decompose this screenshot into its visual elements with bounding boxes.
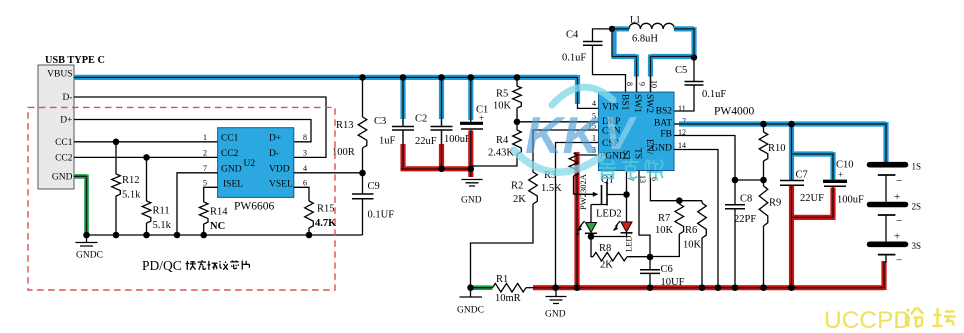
wire CSN net	[533, 130, 599, 172]
svg-text:R9: R9	[769, 198, 781, 209]
label PD/QC protocol chip (Chinese)	[142, 258, 249, 273]
capacitor C6 10UF	[640, 257, 685, 288]
charger IC U1 PW4000	[599, 92, 755, 170]
svg-text:2: 2	[203, 149, 207, 158]
svg-text:GND: GND	[52, 173, 73, 183]
capacitor C1 100uF (polarized)	[444, 105, 488, 146]
op-amp / protocol IC U2 PW6606	[218, 128, 294, 213]
svg-text:5.1k: 5.1k	[122, 190, 141, 201]
svg-text:8: 8	[303, 133, 307, 142]
svg-text:C6: C6	[661, 264, 673, 275]
svg-text:C2: C2	[415, 114, 427, 125]
LED LED1 (red)	[591, 195, 634, 253]
battery cell 3S	[870, 215, 922, 267]
svg-text:C3: C3	[374, 116, 386, 127]
svg-text:UCCPD: UCCPD	[824, 307, 911, 333]
wire U1 pin7	[626, 171, 628, 195]
svg-text:22UF: 22UF	[800, 193, 824, 204]
ground GNDC (battery side)	[457, 288, 484, 316]
U2 pin numbers	[203, 133, 307, 188]
svg-text:SW2: SW2	[644, 94, 654, 113]
wire DRP	[517, 121, 599, 123]
svg-text:R13: R13	[336, 120, 354, 131]
svg-text:C4: C4	[566, 30, 579, 41]
svg-text:3S: 3S	[912, 241, 922, 251]
svg-text:5.1k: 5.1k	[153, 220, 172, 231]
wire U1 pin13	[639, 171, 650, 258]
svg-text:−: −	[896, 215, 902, 227]
wire blue drops to input caps	[403, 79, 471, 120]
capacitor C3 1uF	[374, 116, 414, 147]
svg-text:BAT: BAT	[654, 119, 672, 129]
resistor R11 5.1k	[142, 157, 171, 235]
svg-text:22uF: 22uF	[415, 136, 437, 147]
svg-text:C8: C8	[740, 194, 752, 205]
wire FB	[674, 136, 764, 181]
wire CC2	[74, 156, 218, 158]
capacitor C9 0.1UF	[352, 173, 394, 235]
wire CSP net	[556, 143, 599, 289]
ground GND (power)	[545, 291, 567, 320]
svg-text:6.8uH: 6.8uH	[632, 34, 658, 45]
svg-text:14: 14	[678, 141, 686, 150]
svg-text:4: 4	[303, 164, 307, 173]
svg-text:6: 6	[650, 177, 659, 181]
resistor R5 10K	[493, 79, 521, 122]
svg-text:VDD: VDD	[269, 165, 290, 175]
svg-text:CSN: CSN	[602, 127, 621, 137]
svg-text:22PF: 22PF	[734, 214, 756, 225]
svg-text:R7: R7	[658, 213, 670, 224]
svg-text:VIN: VIN	[602, 103, 619, 113]
svg-text:10K: 10K	[655, 225, 674, 236]
wire U1 pin6 EN	[650, 171, 702, 201]
wire U2 VDD	[294, 172, 363, 174]
svg-text:R10: R10	[768, 143, 786, 154]
capacitor C7 22UF	[780, 170, 824, 288]
svg-text:R1: R1	[496, 274, 508, 285]
wire VBUS into VIN	[578, 104, 599, 108]
svg-text:BS2: BS2	[656, 107, 673, 117]
resistor R10	[759, 124, 785, 180]
resistor R3 1.5K	[541, 153, 578, 194]
wire battery minus stub	[885, 255, 887, 263]
resistor R2 2K	[471, 172, 538, 288]
svg-text:10K: 10K	[683, 240, 702, 251]
svg-text:2K: 2K	[600, 260, 613, 271]
transistor Q1 PW2302A	[574, 173, 627, 222]
wire input-cap ground (red)	[401, 131, 474, 178]
svg-text:DRP: DRP	[602, 117, 620, 127]
svg-text:VSEL: VSEL	[269, 180, 293, 190]
svg-text:GND: GND	[545, 310, 566, 320]
wire U2 GND pin7	[177, 173, 218, 235]
resistor R8 2K	[591, 237, 650, 271]
svg-text:R5: R5	[496, 89, 508, 100]
svg-text:7: 7	[626, 177, 635, 181]
svg-text:NC: NC	[210, 221, 225, 232]
U1 pin numbers	[588, 80, 686, 183]
LED LED2 (green)	[575, 209, 621, 237]
svg-text:0.1uF: 0.1uF	[702, 89, 726, 100]
node junction dots	[83, 74, 795, 291]
svg-text:100uF: 100uF	[837, 195, 864, 206]
svg-text:C9: C9	[368, 181, 380, 192]
svg-text:−: −	[896, 255, 902, 267]
wire SW2 node (blue)	[651, 27, 697, 77]
svg-text:1S: 1S	[912, 162, 922, 172]
svg-text:Q1: Q1	[601, 175, 614, 186]
resistor R12 5.1k	[112, 142, 141, 235]
svg-text:D-: D-	[62, 93, 72, 103]
svg-text:10UF: 10UF	[661, 277, 685, 288]
svg-text:5: 5	[203, 179, 207, 188]
svg-text:3: 3	[592, 146, 596, 155]
svg-text:15: 15	[588, 122, 596, 131]
svg-text:6: 6	[303, 179, 307, 188]
svg-text:8: 8	[625, 82, 634, 86]
capacitor C10 100uF (polarized)	[789, 160, 864, 218]
svg-text:PD/QC: PD/QC	[142, 258, 182, 273]
svg-text:100uF: 100uF	[444, 134, 471, 145]
svg-text:R3: R3	[544, 170, 556, 181]
wire R1 left (green)	[470, 285, 493, 290]
svg-text:4: 4	[592, 99, 596, 108]
svg-text:2S: 2S	[912, 202, 922, 212]
resistor R15 4.7K	[294, 187, 337, 235]
PD/QC protocol section boundary (dashed)	[28, 107, 335, 290]
svg-text:VBUS: VBUS	[47, 70, 72, 80]
svg-text:CSP: CSP	[602, 139, 619, 149]
ground GNDC (USB side)	[76, 235, 103, 261]
wire cores (thin black centers)	[74, 29, 886, 288]
label UCCPD forum (yellow)	[824, 307, 956, 333]
svg-text:D+: D+	[60, 116, 72, 126]
inductor L1 6.8uH	[629, 16, 675, 45]
svg-text:R12: R12	[122, 175, 140, 186]
resistor R7 10K	[650, 201, 684, 257]
svg-text:−: −	[896, 175, 902, 187]
battery cell 2S	[870, 175, 922, 227]
svg-text:5: 5	[592, 112, 596, 121]
capacitor C4 0.1uF	[562, 29, 626, 92]
svg-text:ISEL: ISEL	[223, 180, 243, 190]
wire VBUS (blue)	[74, 75, 578, 104]
svg-text:PW2302A: PW2302A	[578, 173, 588, 210]
watermark KK logo	[514, 87, 663, 178]
svg-text:FB: FB	[660, 130, 672, 140]
svg-text:USB TYPE C: USB TYPE C	[45, 55, 105, 66]
wire battery caps feed (blue)	[789, 126, 833, 180]
battery cell 1S	[870, 162, 922, 188]
wire protocol-side ground bus	[87, 234, 363, 236]
svg-text:CC2: CC2	[221, 149, 239, 159]
svg-text:R15: R15	[317, 204, 335, 215]
svg-text:CC2: CC2	[55, 154, 73, 164]
svg-text:2.43K: 2.43K	[488, 148, 514, 159]
resistor R6 10K	[683, 201, 706, 288]
svg-text:R2: R2	[511, 181, 523, 192]
svg-text:CC1: CC1	[55, 138, 73, 148]
svg-text:+: +	[838, 170, 843, 180]
node SW1/L1 junction	[609, 26, 615, 32]
svg-text:EN/: EN/	[644, 139, 654, 155]
svg-text:3: 3	[303, 149, 307, 158]
svg-text:U2: U2	[244, 159, 256, 169]
svg-text:1uF: 1uF	[379, 136, 396, 147]
svg-text:GNDC: GNDC	[76, 251, 103, 261]
svg-text:D-: D-	[269, 149, 279, 159]
svg-text:SW1: SW1	[632, 94, 642, 113]
resistor R4 2.43K	[472, 122, 521, 166]
svg-text:PW6606: PW6606	[234, 201, 275, 213]
svg-text:7: 7	[203, 164, 207, 173]
svg-text:+: +	[894, 191, 900, 203]
svg-text:R4: R4	[496, 135, 509, 146]
svg-text:GND: GND	[221, 165, 242, 175]
USB Type-C connector J1	[38, 65, 74, 189]
wire SW1 SW2 stubs	[637, 76, 651, 92]
svg-text:LED1: LED1	[624, 231, 634, 252]
svg-text:LED2: LED2	[596, 209, 622, 220]
svg-text:+: +	[894, 231, 900, 243]
wire U1 GND pin14	[674, 150, 718, 288]
resistor R14 NC	[199, 187, 228, 235]
wire CC1	[74, 141, 218, 143]
svg-text:R11: R11	[153, 206, 170, 217]
svg-text:BS1: BS1	[620, 94, 630, 111]
svg-text:GND: GND	[461, 196, 482, 206]
resistor R13 100R	[332, 79, 367, 173]
wire BAT (blue)	[674, 123, 680, 125]
wire D- to U2 pin3	[74, 97, 326, 157]
svg-text:C7: C7	[796, 170, 808, 181]
capacitor C2 22uF	[415, 114, 453, 148]
wire D+ to U2 pin8	[74, 120, 311, 142]
svg-text:0.1uF: 0.1uF	[562, 53, 586, 64]
node SW2/C5 junction	[691, 54, 697, 60]
svg-text:R14: R14	[210, 207, 228, 218]
svg-text:9: 9	[638, 82, 647, 86]
svg-text:10mR: 10mR	[495, 293, 521, 304]
wire GND (green) from USB	[74, 175, 87, 236]
resistor R9	[759, 180, 781, 288]
svg-text:0.1UF: 0.1UF	[368, 210, 395, 221]
wire PGND (red)	[578, 154, 599, 156]
svg-text:D+: D+	[269, 134, 281, 144]
svg-text:TS: TS	[633, 148, 643, 159]
svg-text:2K: 2K	[513, 194, 526, 205]
svg-text:L1: L1	[630, 16, 641, 26]
svg-text:+: +	[479, 113, 484, 123]
svg-text:R8: R8	[599, 243, 611, 254]
svg-text:R6: R6	[685, 225, 697, 236]
wire power ground bus (red)	[533, 261, 884, 290]
svg-text:1.5K: 1.5K	[541, 183, 562, 194]
svg-text:1: 1	[592, 134, 596, 143]
ground GND (input caps)	[461, 180, 483, 206]
svg-text:1: 1	[203, 133, 207, 142]
svg-text:ST: ST	[621, 150, 631, 161]
svg-text:C5: C5	[675, 65, 687, 76]
svg-text:4.7K: 4.7K	[315, 218, 337, 229]
capacitor C5 0.1uF	[674, 58, 726, 112]
svg-text:PW4000: PW4000	[714, 106, 755, 118]
svg-text:CC1: CC1	[221, 134, 239, 144]
svg-text:10K: 10K	[493, 101, 512, 112]
svg-text:GNDC: GNDC	[457, 306, 484, 316]
capacitor C8 22PF	[725, 180, 756, 288]
resistor R1 10mR	[490, 274, 534, 304]
wire SW1 node (blue)	[612, 29, 637, 77]
svg-text:11: 11	[678, 104, 686, 113]
